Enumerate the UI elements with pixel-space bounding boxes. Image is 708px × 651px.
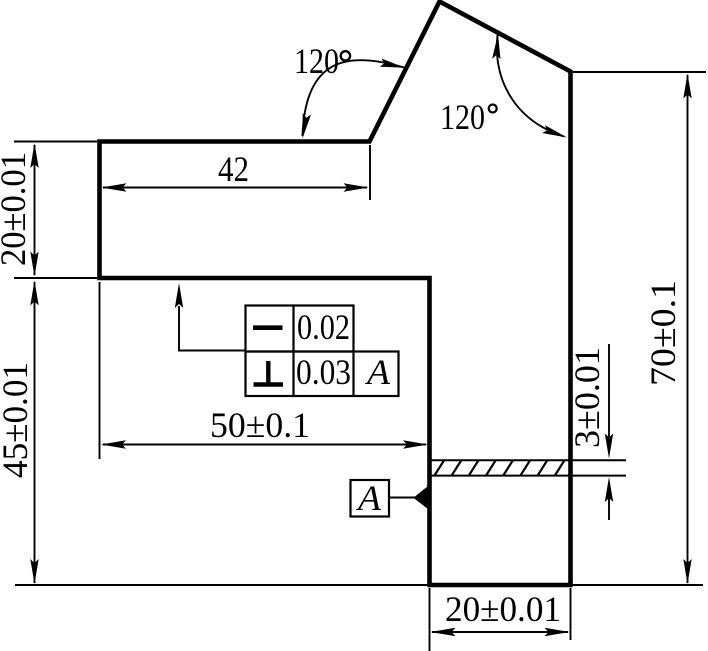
120° arc right bbox=[497, 35, 564, 137]
hatch strokes bbox=[416, 459, 583, 478]
svg-text:42: 42 bbox=[218, 149, 249, 189]
hatched slot lines bbox=[430, 460, 627, 475]
dim 3±0.01 upper line bbox=[608, 344, 610, 450]
dim 42 extension line bbox=[369, 145, 371, 200]
dim 20±0.01 bottom extension lines bbox=[430, 588, 571, 651]
perpendicularity symbol bbox=[254, 382, 284, 386]
baseline extension bbox=[15, 584, 703, 586]
arc left arrowhead top bbox=[380, 59, 405, 68]
dim 20±0.01 left extension lines bbox=[14, 142, 97, 279]
feature control frame row1 bbox=[246, 306, 354, 352]
svg-text:50±0.1: 50±0.1 bbox=[210, 405, 310, 445]
straightness symbol bbox=[253, 325, 283, 330]
dim 70±0.1 dimension line bbox=[687, 75, 689, 583]
arc right arrowhead bottom bbox=[542, 125, 567, 137]
dim 50±0.1 dimension line bbox=[103, 444, 426, 446]
svg-text:120: 120 bbox=[294, 41, 339, 81]
arc right arrowhead top bbox=[492, 34, 500, 59]
dim 50±0.1 extension line bbox=[99, 282, 101, 459]
dim 20±0.01 bottom dimension line bbox=[432, 631, 568, 633]
svg-text:70±0.1: 70±0.1 bbox=[643, 280, 683, 386]
feature control frame row2 bbox=[246, 352, 399, 397]
datum leader bbox=[389, 497, 415, 499]
feature control frame leader arrow bbox=[175, 283, 183, 308]
dim 45±0.01 dimension line bbox=[34, 282, 36, 583]
datum triangle bbox=[413, 484, 430, 511]
svg-text:A: A bbox=[365, 352, 391, 392]
svg-text:0.03: 0.03 bbox=[296, 352, 351, 392]
datum A box bbox=[351, 480, 390, 517]
svg-text:A: A bbox=[356, 478, 382, 518]
svg-text:20±0.01: 20±0.01 bbox=[445, 589, 561, 629]
svg-text:3±0.01: 3±0.01 bbox=[567, 347, 607, 448]
dim 20±0.01 left dimension line bbox=[34, 145, 36, 275]
dim 3±0.01 lower line bbox=[608, 484, 610, 520]
dim 42 dimension line bbox=[103, 187, 367, 189]
120° arc left bbox=[303, 60, 405, 136]
svg-text:120: 120 bbox=[440, 97, 485, 137]
dim 70±0.1 extension line bbox=[573, 71, 706, 73]
arc left arrowhead bottom bbox=[303, 113, 312, 138]
svg-text:0.02: 0.02 bbox=[297, 307, 350, 347]
part outline bbox=[100, 2, 571, 586]
svg-text:45±0.01: 45±0.01 bbox=[0, 362, 35, 478]
svg-text:20±0.01: 20±0.01 bbox=[0, 152, 33, 266]
